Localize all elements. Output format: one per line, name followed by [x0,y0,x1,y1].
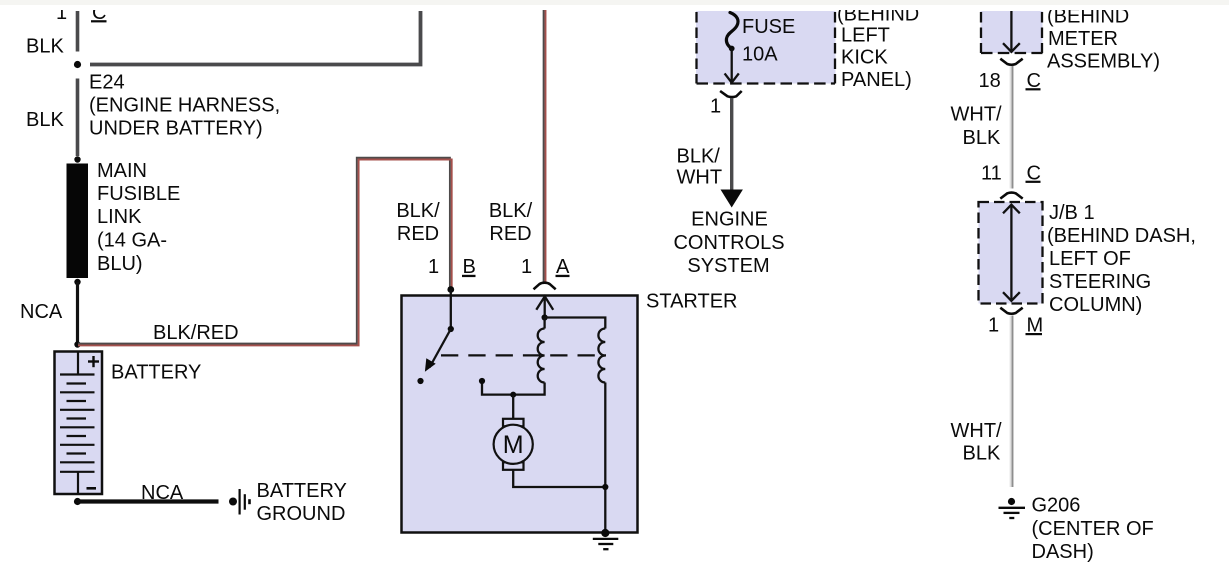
node C [1026,70,1041,92]
svg-text:BLK: BLK [26,109,64,131]
label BLK/RED (A wire) [489,200,533,245]
label (BEHIND LEFT KICK PANEL) [837,4,919,92]
svg-text:STEERING: STEERING [1049,271,1151,293]
label BLK/RED (B wire) [396,200,440,245]
svg-text:BLU): BLU) [97,253,143,275]
wire hold-in coil to ground rail [604,383,606,534]
node B [462,256,476,278]
connector cup below fuse box [720,91,742,97]
svg-text:NCA: NCA [20,301,63,323]
ground G206 [999,498,1026,518]
junction dot below arrow [542,314,548,320]
svg-text:ENGINE: ENGINE [691,209,768,231]
svg-text:WHT/: WHT/ [951,104,1003,126]
svg-text:BATTERY: BATTERY [257,480,347,502]
contact dot [479,378,485,384]
wire junction to motor [512,395,514,419]
node E24 junction dot [74,61,81,68]
svg-text:DASH): DASH) [1032,541,1094,563]
node A [556,256,571,278]
svg-text:UNDER BATTERY): UNDER BATTERY) [89,118,263,140]
label G206 (CENTER OF DASH) [1032,495,1154,564]
node C [1026,163,1041,185]
svg-text:A: A [556,256,570,278]
junction dot below fusible link [74,279,80,285]
svg-text:1: 1 [428,256,439,278]
svg-text:BATTERY: BATTERY [111,362,201,384]
wire BLK horizontal branch to top [90,11,421,65]
wire BLK vertical to fusible link [76,79,80,157]
wire WHT/BLK (meter to J/B) [1011,66,1013,189]
label BATTERY GROUND [257,480,347,525]
svg-text:BLK/RED: BLK/RED [153,322,239,344]
connector cap at terminal A [534,283,556,290]
switch blade with arrow [425,329,451,372]
connector cap above J/B box [1000,193,1022,199]
wire motor to ground rail [513,470,605,487]
starter box [402,296,638,533]
hold-in coil L2 [598,329,605,383]
svg-text:PANEL): PANEL) [841,69,912,91]
wire NCA vertical [76,282,79,345]
svg-text:MAIN: MAIN [97,160,147,182]
svg-text:KICK: KICK [841,47,888,69]
svg-text:18: 18 [979,70,1001,92]
svg-text:M: M [503,431,524,459]
label E24 (ENGINE HARNESS, UNDER BATTERY) [89,72,280,140]
svg-text:BLK/: BLK/ [677,146,721,168]
junction dot battery negative [74,498,81,505]
label BLK/WHT [677,146,723,189]
svg-text:(CENTER OF: (CENTER OF [1032,518,1154,540]
motor M [494,419,533,470]
svg-text:J/B 1: J/B 1 [1049,202,1095,224]
fuse box (behind left kick panel) [696,11,836,84]
wire B terminal to switch pivot [450,290,452,330]
label (BEHIND METER ASSEMBLY) [1047,6,1160,73]
double arrow inside J/B [1003,205,1020,301]
wire BLK/WHT down [730,98,733,192]
meter assembly box (behind meter assembly) [981,11,1043,53]
connector cup below J/B box [1000,308,1022,314]
svg-text:LEFT OF: LEFT OF [1049,248,1131,270]
svg-text:RED: RED [489,223,531,245]
arrow up inside box at A terminal [536,296,553,317]
label WHT/BLK [951,104,1003,150]
svg-text:BLK/: BLK/ [396,200,440,222]
fuse FUSE 10A [725,13,739,83]
connector cup below meter box [1000,59,1022,65]
battery [55,352,103,495]
svg-text:11: 11 [981,163,1002,185]
svg-text:STARTER: STARTER [646,291,738,313]
svg-text:RED: RED [397,223,439,245]
svg-text:METER: METER [1048,28,1118,50]
svg-text:(ENGINE HARNESS,: (ENGINE HARNESS, [89,95,280,117]
svg-text:COLUMN): COLUMN) [1049,294,1142,316]
svg-text:SYSTEM: SYSTEM [687,255,769,277]
terminal B junction dot [447,286,454,293]
switch pivot dot [448,326,454,332]
label FUSE 10A [742,16,795,66]
ground (starter case) [593,539,619,549]
junction dot ground rail [602,484,608,490]
svg-text:1: 1 [988,315,999,337]
label WHT/BLK [951,420,1003,465]
wire to hold-in coil [545,318,606,329]
node M [1026,315,1044,337]
svg-text:BLK/: BLK/ [489,200,533,222]
svg-text:B: B [463,256,476,278]
junction block J/B 1 box [979,202,1043,304]
svg-text:1: 1 [710,96,721,118]
svg-text:BLK: BLK [963,443,1001,465]
battery ground symbol [229,489,251,515]
svg-text:LINK: LINK [97,206,142,228]
svg-text:FUSIBLE: FUSIBLE [97,183,180,205]
switch fixed contact dot [417,378,423,384]
pull-in coil L1 [538,329,545,383]
svg-text:LEFT: LEFT [841,25,890,47]
main fusible link (14 GA-BLU) [67,164,89,279]
svg-text:10A: 10A [742,44,778,66]
svg-text:FUSE: FUSE [742,16,795,38]
svg-text:(BEHIND DASH,: (BEHIND DASH, [1047,225,1196,247]
label J/B 1 (BEHIND DASH, LEFT OF STEERING COLUMN) [1047,202,1196,316]
svg-text:BLK: BLK [26,36,64,58]
junction dot at box bottom [601,529,609,537]
svg-text:G206: G206 [1032,495,1081,517]
arrow down inside meter box [1003,11,1020,52]
wire BLK/RED battery to starter B terminal [78,158,452,346]
wire NCA battery ground [78,499,219,503]
junction dot battery positive [74,341,80,347]
svg-text:1: 1 [521,256,532,278]
svg-text:WHT: WHT [677,167,723,189]
svg-text:BLK: BLK [963,127,1001,149]
motor junction dot [510,392,516,398]
wire WHT/BLK (J/B to G206) [1011,316,1013,488]
wire BLK/RED to starter A terminal [544,10,546,284]
wire BLK vertical top-left segment [76,11,80,52]
solenoid dashed actuation line [441,354,606,356]
svg-text:(14 GA-: (14 GA- [97,230,167,252]
wire pull-in coil bottom to contact [482,381,545,395]
svg-text:GROUND: GROUND [257,503,346,525]
junction dot above fusible link [74,156,80,162]
svg-text:NCA: NCA [141,482,184,504]
top edge strip [0,0,1229,10]
arrowhead to engine controls system [721,190,743,208]
label MAIN FUSIBLE LINK (14 GA-BLU) [97,160,180,275]
node C (connector label, top-left cut off) [56,2,107,24]
svg-text:CONTROLS: CONTROLS [673,232,784,254]
label ENGINE CONTROLS SYSTEM [673,209,784,278]
svg-text:E24: E24 [89,72,125,94]
svg-text:ASSEMBLY): ASSEMBLY) [1047,51,1160,73]
wire to pull-in coil [543,318,545,329]
svg-text:WHT/: WHT/ [951,420,1003,442]
